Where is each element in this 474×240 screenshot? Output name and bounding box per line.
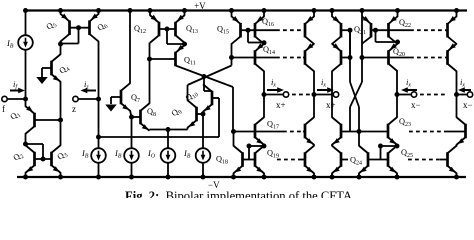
wire Q1 base to node A — [35, 119, 61, 121]
node Q9 base junction — [201, 112, 206, 117]
label Q24 — [350, 156, 362, 167]
svg-text:IB: IB — [183, 148, 191, 160]
current arrow i_f — [10, 88, 25, 94]
wire Q7 emitter to Q8 base — [130, 110, 132, 117]
label Q1 — [9, 109, 23, 123]
wire Q2 emitter to -V — [23, 172, 28, 179]
transistor Q8 — [141, 103, 150, 131]
wire colL bottom base stub — [341, 159, 348, 161]
label I_B — [6, 38, 14, 50]
transistor colL cascode npn — [332, 117, 341, 145]
terminal z — [73, 96, 101, 101]
wire branch4 to x- node — [456, 71, 458, 118]
node A junction — [58, 118, 63, 123]
wire Q21/Q22 base rail — [371, 28, 389, 33]
svg-text:Q23: Q23 — [399, 117, 411, 128]
caption — [125, 189, 352, 203]
svg-text:Q14: Q14 — [263, 45, 275, 56]
wire Q24/Q25 base rail — [368, 159, 388, 161]
transistor Q21 — [362, 16, 371, 37]
wire bottom mirror base dashes right — [408, 159, 449, 161]
label x+ #1 — [276, 100, 286, 110]
svg-text:Q19: Q19 — [267, 149, 279, 160]
wire Q21 collector — [362, 37, 371, 44]
wire Q9 base — [197, 113, 204, 115]
wire cascode base line row1 — [248, 29, 305, 31]
label Q13 — [186, 24, 198, 35]
transistor Q13 — [176, 15, 185, 43]
current arrow i_x #3 — [401, 87, 417, 93]
terminal x- #2 — [457, 92, 473, 97]
wire branch2 emitter to -V — [312, 173, 317, 180]
transistor branch2 upper pnp — [305, 16, 314, 44]
wire branch4 emitter to -V — [454, 173, 459, 180]
transistor Q3 — [52, 145, 61, 173]
svg-text:Q15: Q15 — [217, 25, 229, 36]
wire bottom mirror base dashes — [277, 159, 305, 161]
node Q19 collector junction — [262, 144, 267, 149]
label Q4 — [58, 63, 72, 77]
wire Q11 collector diagonal A — [176, 66, 234, 132]
label I_B tail 2 — [183, 148, 191, 160]
wire branch2 upper emitter — [312, 8, 317, 17]
label i_x #3 — [406, 77, 411, 89]
transistor colL upper pnp — [332, 16, 341, 44]
wire Q15 base link to branch1 cascode node — [248, 30, 267, 45]
wire Q9 collector diagonal B — [188, 58, 232, 101]
svg-text:Q22: Q22 — [399, 18, 411, 29]
label I_O — [147, 148, 156, 160]
wire Q4 base to ground — [42, 68, 52, 77]
node x- #2 — [454, 92, 459, 97]
wire Q20 emitter — [397, 42, 399, 44]
svg-text:Fig. 2: Bipolar implementatio: Fig. 2: Bipolar implementation of the CF… — [125, 189, 352, 198]
wire branch3 lower link — [396, 144, 398, 146]
wire branch4 lower link — [456, 144, 458, 146]
transistor Q4 — [52, 54, 61, 82]
wire Q22 emitter to +V — [395, 8, 400, 17]
label i_x #2 — [321, 77, 326, 89]
svg-text:Q18: Q18 — [216, 155, 228, 166]
svg-text:ix: ix — [406, 77, 411, 89]
label z — [72, 104, 76, 114]
wire Q6 collector to node z — [98, 41, 100, 99]
transistor Q22 — [389, 16, 398, 44]
transistor colL bottom npn — [332, 146, 341, 174]
transistor branch2 cascode pnp — [305, 43, 314, 71]
transistor Q5 — [61, 14, 70, 42]
wire Q11 emitter — [184, 44, 186, 46]
transistor Q24 — [359, 146, 368, 174]
wire Q15 emitter to +V — [229, 8, 234, 17]
label Q3 — [56, 149, 70, 163]
wire Q5 emitter to +V — [58, 8, 63, 14]
wire cascode base row2 right — [389, 57, 449, 59]
wire branch1 to x+ node — [263, 71, 265, 118]
node x+ #2 — [312, 92, 317, 97]
label Q12 — [134, 24, 146, 35]
transistor branch3 cascode npn Q23 — [388, 117, 397, 145]
label Q22 — [399, 18, 411, 29]
transistor Q2 — [26, 145, 35, 173]
wire -V supply rail — [17, 176, 466, 178]
wire colL row2 base drop — [349, 30, 351, 57]
svg-text:Q16: Q16 — [262, 17, 274, 28]
svg-text:Q5: Q5 — [45, 19, 59, 33]
svg-text:ix: ix — [321, 77, 326, 89]
transistor Q10 — [203, 84, 212, 112]
transistor Q17 — [255, 117, 264, 145]
svg-text:Q21: Q21 — [354, 25, 366, 36]
wire Q2/Q3 base rail — [35, 157, 52, 162]
wire Q11 base to Q12 collector — [150, 58, 176, 60]
wire lower cascode base line right — [341, 131, 466, 133]
wire Q6 emitter to +V — [96, 8, 101, 14]
wire +V supply rail — [26, 9, 468, 11]
svg-text:Q20: Q20 — [393, 47, 405, 58]
wire lower cascode base line — [234, 131, 306, 133]
wire Q10 base — [212, 97, 219, 99]
transistor colL cascode pnp — [332, 43, 341, 71]
wire branch4 cascode link — [456, 42, 458, 45]
svg-text:+V: +V — [194, 1, 206, 11]
wire Q10 collector — [204, 77, 212, 92]
transistor Q19 — [255, 146, 264, 174]
label I_B z-node source — [81, 148, 89, 160]
transistor Q12 — [150, 15, 159, 43]
wire Q1 collector down — [23, 133, 28, 146]
wire cross-link to mirror base — [26, 144, 44, 159]
svg-text:iz: iz — [84, 79, 89, 91]
label f — [2, 104, 5, 114]
label Q18 — [216, 155, 228, 166]
wire branch1 upper emitter — [262, 8, 267, 17]
wire Q24 collector — [358, 132, 360, 147]
svg-text:Q10: Q10 — [184, 88, 200, 104]
transistor Q25 — [388, 146, 397, 174]
svg-text:Q12: Q12 — [134, 24, 146, 35]
wire Q5 collector — [60, 41, 62, 44]
wire Q5 diode link — [61, 28, 79, 44]
wire Q19 diode link — [247, 144, 265, 160]
wire colL row2 base — [341, 55, 353, 60]
wire Q20 base — [360, 55, 389, 60]
label Q11 — [184, 56, 196, 67]
label Q8 — [147, 107, 156, 118]
terminal f — [2, 96, 28, 101]
svg-text:Q6: Q6 — [96, 20, 110, 34]
svg-text:Q13: Q13 — [186, 24, 198, 35]
current arrow i_x #1 — [267, 87, 284, 93]
wire Q8 base — [132, 116, 141, 118]
wire crossover right to left — [350, 17, 362, 132]
wire Q18 emitter to -V — [231, 173, 236, 180]
svg-text:IB: IB — [81, 148, 89, 160]
wire branch3 to x- node — [396, 71, 398, 118]
svg-text:Q17: Q17 — [267, 120, 279, 131]
transistor branch4 bottom npn — [448, 146, 457, 174]
wire Q8 emitter — [149, 129, 151, 132]
wire Q3 emitter to -V — [58, 172, 63, 179]
wire Q9 base bias down — [202, 114, 204, 148]
transistor Q16 — [255, 16, 264, 44]
transistor branch2 bottom npn — [305, 146, 314, 174]
node x- #1 — [395, 92, 400, 97]
transistor branch2 cascode npn — [305, 117, 314, 145]
current source I_B bias top-left — [18, 8, 33, 99]
label Q6 — [96, 20, 110, 34]
wire branch2 to x+ node — [313, 71, 315, 118]
node x+ #1 — [262, 92, 267, 97]
current arrow i_x #4 — [458, 87, 471, 93]
current arrow i_x #2 — [317, 87, 334, 93]
wire Q19 emitter to -V — [262, 173, 267, 180]
label i_f — [13, 79, 18, 91]
wire Q2 collector — [25, 144, 27, 146]
node Q25 collector junction — [395, 144, 400, 149]
transistor Q14 — [255, 43, 264, 71]
wire x- dashed continuation — [420, 94, 448, 96]
ground at Q4 base — [36, 77, 48, 84]
svg-text:if: if — [13, 79, 18, 91]
wire colL cascode link — [331, 42, 333, 45]
transistor branch4 cascode pnp — [448, 43, 457, 71]
svg-text:Q7: Q7 — [131, 93, 140, 104]
wire x+ dashed continuation — [292, 94, 310, 96]
svg-text:IB: IB — [6, 38, 14, 50]
label Q20 — [393, 47, 405, 58]
transistor Q11 — [176, 45, 185, 66]
svg-text:Q1: Q1 — [9, 109, 23, 123]
label Q7 — [131, 93, 140, 104]
svg-text:Q2: Q2 — [12, 150, 26, 164]
label i_x #1 — [271, 77, 276, 89]
transistor Q1 — [26, 106, 35, 134]
wire z to Q10 base — [99, 98, 220, 137]
svg-text:IO: IO — [147, 148, 156, 160]
wire node z down — [96, 99, 101, 148]
node crossing dot — [202, 74, 207, 79]
label +V — [194, 1, 206, 11]
node Q11 emitter junction — [182, 42, 187, 47]
wire Q21 emitter to +V — [360, 8, 365, 17]
wire mirror diode link right — [376, 30, 401, 44]
wire Q13 emitter to +V — [182, 8, 187, 16]
svg-text:Q24: Q24 — [350, 156, 362, 167]
wire branch1 cascode link — [263, 42, 265, 45]
current source I_B z-node — [91, 148, 106, 179]
ground at Q7 base — [105, 105, 117, 112]
transistor Q7 — [121, 83, 130, 111]
wire crossover left to right — [350, 30, 359, 131]
wire Q7 collector to +V — [128, 8, 133, 84]
label Q17 — [267, 120, 279, 131]
label I_B tail 1 — [114, 148, 122, 160]
svg-text:IB: IB — [114, 148, 122, 160]
wire Q9 emitter — [187, 127, 189, 129]
wire Q1 emitter from node f — [25, 99, 27, 107]
current source I_O tail — [161, 148, 176, 179]
wire Q5/Q6 base rail — [70, 25, 90, 30]
wire colL lower link — [331, 144, 333, 146]
label Q2 — [12, 150, 26, 164]
label Q14 — [263, 45, 275, 56]
wire Q12 emitter to +V — [148, 8, 153, 16]
svg-text:ix: ix — [271, 77, 276, 89]
wire branch2 lower link — [313, 144, 315, 146]
wire Q15 base — [241, 29, 249, 31]
current arrow i_z — [81, 88, 97, 94]
wire colL upper emitter — [330, 8, 335, 17]
label Q15 — [217, 25, 229, 36]
label x+ #2 — [326, 100, 336, 110]
svg-text:x−: x− — [463, 100, 473, 110]
wire Q17 emitter link — [263, 144, 265, 146]
wire mirror diode link — [167, 29, 185, 44]
svg-text:x+: x+ — [326, 100, 336, 110]
wire branch4 upper emitter — [454, 8, 459, 17]
wire Q25 diode link — [378, 144, 397, 160]
svg-text:Q11: Q11 — [184, 56, 196, 67]
transistor branch4 cascode npn — [457, 117, 466, 145]
wire Q4 collector — [58, 42, 63, 55]
wire Q8 collector to mirror — [147, 43, 152, 104]
wire Q13 collector — [184, 42, 186, 44]
wire branch2 cascode link — [313, 42, 315, 45]
wire colL row1 base — [341, 28, 353, 33]
label Q23 — [399, 117, 411, 128]
wire Q8 base bias down — [131, 117, 133, 148]
label i_z — [84, 79, 89, 91]
node lower cascode base node right — [357, 129, 362, 134]
transistor Q6 — [90, 14, 99, 42]
svg-text:ix: ix — [460, 77, 465, 89]
label Q19 — [267, 149, 279, 160]
label Q10 — [184, 88, 200, 104]
svg-text:Q25: Q25 — [401, 148, 413, 159]
label Q25 — [401, 148, 413, 159]
wire Q25 emitter to -V — [395, 173, 400, 180]
label Q5 — [45, 19, 59, 33]
transistor Q15 — [232, 16, 241, 44]
wire Q18/Q19 base rail — [243, 159, 256, 161]
label Q16 — [262, 17, 274, 28]
wire colL emitter to -V — [330, 173, 335, 180]
svg-text:Q9: Q9 — [170, 105, 184, 119]
wire Q4 emitter to node A — [60, 81, 62, 120]
svg-text:Q3: Q3 — [56, 149, 70, 163]
wire Q12/Q13 base rail — [159, 27, 176, 32]
terminal x+ #2 — [314, 92, 339, 97]
wire colL vertical — [331, 71, 333, 118]
wire cascode base line row2 — [232, 57, 306, 59]
svg-text:z: z — [72, 104, 76, 114]
transistor branch4 upper pnp — [448, 16, 457, 44]
wire Q3 collector to node A — [60, 120, 62, 146]
svg-text:x−: x− — [411, 100, 421, 110]
transistor Q18 — [234, 146, 243, 174]
terminal x- #1 — [397, 92, 417, 97]
label x- #2 — [463, 100, 473, 110]
terminal x+ #1 — [264, 92, 289, 97]
wire diff-pair emitter bracket — [150, 127, 188, 148]
node lower cascode base node — [231, 129, 236, 134]
label Q21 — [354, 25, 366, 36]
svg-text:f: f — [2, 104, 5, 114]
wire cascode base row1 right — [389, 29, 449, 31]
label -V — [208, 180, 220, 190]
label Q9 — [170, 105, 184, 119]
node Q15 base junction — [246, 28, 251, 33]
wire Q24 emitter to -V — [357, 173, 362, 180]
svg-text:x+: x+ — [276, 100, 286, 110]
current source I_B tail 2 — [196, 148, 211, 179]
transistor Q20 — [389, 43, 398, 71]
current source I_B tail 1 — [124, 148, 139, 179]
svg-text:Q4: Q4 — [58, 63, 72, 77]
wire Q10 emitter to Q9 base — [202, 111, 204, 114]
wire Q15 collector — [229, 43, 234, 60]
wire Q7 base to ground — [111, 97, 121, 104]
transistor Q9 — [188, 100, 197, 128]
label x- #1 — [411, 100, 421, 110]
label i_x #4 — [460, 77, 465, 89]
node Q8 base junction — [129, 115, 134, 120]
svg-text:Q8: Q8 — [147, 107, 156, 118]
wire Q18 collector — [233, 132, 235, 147]
